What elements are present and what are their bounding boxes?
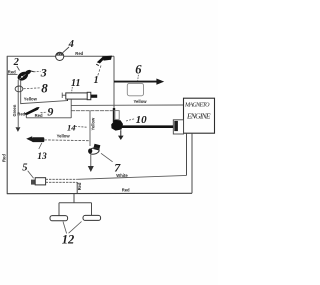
green wire arrow end xyxy=(16,127,21,132)
label 10 xyxy=(126,114,147,126)
node 10 blob xyxy=(111,120,123,140)
svg-text:8: 8 xyxy=(41,81,48,96)
svg-text:1: 1 xyxy=(94,75,99,86)
blade connector 9 xyxy=(24,107,40,118)
MAGNETO ENGINE box xyxy=(184,98,215,133)
label 9 xyxy=(41,105,54,119)
label 12 xyxy=(62,222,82,247)
svg-text:Red: Red xyxy=(122,188,130,193)
magneto pin 1 wire xyxy=(186,133,188,175)
wire red 9 horizontal xyxy=(26,117,71,119)
red drop vertical at 77 xyxy=(76,182,78,194)
svg-text:13: 13 xyxy=(37,152,47,162)
label 6 xyxy=(135,63,142,81)
svg-text:ENGINE: ENGINE xyxy=(186,112,211,121)
wire main vertical xyxy=(113,56,115,109)
switch pins vertical pair xyxy=(18,80,21,127)
svg-text:10: 10 xyxy=(136,114,148,126)
fuse double cable xyxy=(46,179,78,182)
label 13 xyxy=(37,143,47,162)
connector sleeve above node 10 xyxy=(115,111,120,120)
connector box at engine xyxy=(173,120,183,134)
svg-text:Red: Red xyxy=(35,113,43,118)
svg-text:5: 5 xyxy=(22,162,27,173)
wire vertical yellow (14) xyxy=(89,111,91,146)
arrow below 7 xyxy=(88,155,94,173)
svg-text:Red: Red xyxy=(8,70,16,75)
svg-text:MAGNETO: MAGNETO xyxy=(184,103,210,109)
svg-text:9: 9 xyxy=(47,105,53,119)
svg-text:Red: Red xyxy=(75,51,83,56)
svg-text:Yellow: Yellow xyxy=(91,117,96,131)
svg-text:Red: Red xyxy=(77,182,82,190)
switch 7 xyxy=(88,144,113,162)
svg-text:Red: Red xyxy=(2,154,7,162)
label 3 xyxy=(34,65,47,79)
svg-text:Red: Red xyxy=(17,112,25,117)
wire left vertical red xyxy=(6,56,8,193)
wire B xyxy=(71,110,114,112)
key switch 2 xyxy=(16,69,34,83)
magneto pin 2 wire xyxy=(191,133,193,193)
svg-text:Yellow: Yellow xyxy=(24,97,38,102)
bottom wire xyxy=(7,192,192,194)
component 11 body xyxy=(62,92,97,118)
spark plug thick wire xyxy=(122,125,173,128)
fuse holder 6 box xyxy=(127,83,143,95)
label 8 xyxy=(24,81,49,96)
svg-text:Yellow: Yellow xyxy=(57,133,71,138)
fuse 5 xyxy=(31,178,46,185)
svg-text:12: 12 xyxy=(62,232,75,246)
starter 12 xyxy=(50,194,101,221)
component 4 circle xyxy=(56,47,69,61)
svg-text:4: 4 xyxy=(68,39,74,50)
wire A yellow to magneto xyxy=(71,104,183,106)
wire red branch to switch xyxy=(7,73,17,75)
svg-text:White: White xyxy=(116,173,128,178)
wire yellow from switch to 11 xyxy=(21,101,68,104)
svg-text:2: 2 xyxy=(13,57,20,68)
connector 1 arrow xyxy=(96,56,112,76)
label 5 xyxy=(22,162,33,178)
wire 6 thick with arrow xyxy=(114,79,164,85)
label 2 xyxy=(13,57,20,70)
svg-text:14: 14 xyxy=(67,122,76,132)
svg-text:Yellow: Yellow xyxy=(134,99,148,104)
wire vertical thick above node 10 xyxy=(113,108,115,122)
ring terminal 8 xyxy=(15,86,23,92)
wire top horizontal xyxy=(7,55,114,57)
connector 13 xyxy=(26,136,90,142)
svg-text:6: 6 xyxy=(135,63,142,77)
label 14 xyxy=(67,122,87,132)
svg-text:3: 3 xyxy=(40,65,47,79)
label 11 xyxy=(71,78,80,92)
white wire xyxy=(77,175,186,179)
